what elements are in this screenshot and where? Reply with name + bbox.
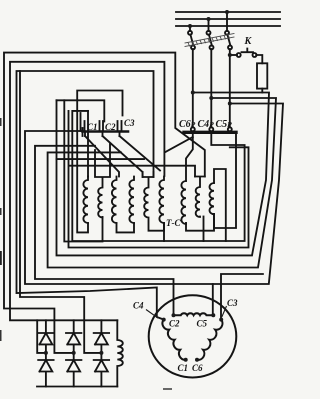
transformer coil G (181, 181, 186, 224)
svg-text:Т-С: Т-С (166, 218, 181, 228)
scan mark (163, 388, 172, 390)
svg-text:С2: С2 (105, 122, 116, 132)
bridge bottom rail (37, 386, 117, 388)
stub C1 (84, 131, 86, 136)
motor left winding (162, 320, 185, 360)
diode bridge top rail (37, 319, 117, 321)
diode D3 top (94, 320, 109, 353)
wire loop1 from bus area down-left (4, 53, 205, 353)
wire C2 net (35, 146, 174, 315)
transformer coil E (mid) with top bar (143, 172, 164, 231)
wire strip right end to coil I bottom (214, 134, 236, 229)
bar left tick (82, 128, 84, 136)
motor winding dots (162, 313, 224, 362)
wire l1 branch (57, 158, 145, 160)
leader C4 (146, 310, 158, 319)
stub C3 (119, 131, 121, 136)
contactor pole 3 (225, 12, 232, 131)
transformer coil I (209, 183, 214, 214)
wire coil F bottom stub (163, 223, 165, 241)
contact K (237, 53, 241, 57)
terminal C1 clip (85, 121, 100, 130)
stub C2 (102, 131, 104, 136)
transformer coil H (mid) (195, 177, 205, 218)
wire H_B to right edge (48, 98, 276, 268)
svg-text:С4: С4 (133, 301, 144, 311)
contact K wire (230, 54, 237, 56)
wire col3 feed (20, 71, 101, 353)
scan edge artifact 2 (0, 208, 2, 215)
transformer coil B (mid) with top bar (95, 144, 110, 218)
svg-text:С6: С6 (192, 363, 203, 373)
svg-text:С3: С3 (124, 118, 135, 128)
wire B bottom feed (64, 100, 102, 241)
wire loop3 (17, 71, 164, 320)
contactor pole 1 (188, 26, 195, 131)
wire coil I top (214, 169, 226, 241)
diode D4 bottom (38, 353, 53, 387)
svg-text:С5Р: С5Р (216, 119, 233, 130)
diagonal d2 (103, 136, 143, 177)
wire stub above bar (80, 113, 82, 131)
motor right winding (197, 320, 223, 360)
svg-text:С3: С3 (227, 298, 238, 308)
terminal C2 clip (103, 121, 118, 130)
svg-text:С2: С2 (169, 319, 180, 329)
wire resistor down (261, 89, 263, 93)
wire C-D bottom join (117, 223, 135, 232)
terminal bar C1C2C3 (83, 130, 129, 133)
transformer coil C (112, 177, 117, 224)
wire strip2 terminal to transformer bottoms (72, 111, 244, 241)
wire coil A bottom loop over terminals (77, 91, 122, 233)
junction dots on bus (188, 10, 229, 28)
scan edge artifact 4 (0, 330, 2, 341)
transformer T-C group1 coil A (83, 177, 88, 224)
wire coil H bottom stub (203, 217, 205, 242)
scan edge artifact 3 (0, 251, 2, 265)
diagonal d1 (85, 136, 119, 177)
wire K to resistor (256, 55, 262, 63)
contactor coupling bar (185, 34, 234, 47)
resistor R (257, 63, 267, 88)
wire row B top (57, 100, 105, 121)
terminal strip C6P C4P C5P (184, 131, 236, 134)
wire G-I bottom join (186, 214, 214, 231)
choke coil (117, 320, 123, 386)
motor top winding (174, 313, 214, 315)
svg-text:С4Р: С4Р (198, 119, 215, 130)
wire strip1 diagonal to coil F line (165, 137, 192, 152)
diode D1 top (38, 320, 53, 353)
diode D5 bottom (66, 353, 81, 387)
transformer coil D (129, 177, 134, 224)
svg-text:К: К (244, 36, 253, 47)
svg-text:С1: С1 (87, 122, 98, 132)
wire H_C to right edge (213, 104, 283, 285)
svg-text:С1: С1 (178, 363, 189, 373)
bus line L1 (176, 11, 280, 13)
wire C5 feeder from bar (25, 131, 174, 284)
svg-text:С5: С5 (197, 319, 208, 329)
wire C5 entry (174, 284, 213, 315)
transformer coil F (159, 177, 164, 224)
bus line L3 (176, 25, 280, 27)
wire E bottom net (69, 111, 249, 248)
wire loop2 (10, 62, 164, 353)
wire strip1 to coil G top (186, 134, 193, 182)
terminal C3 clip (121, 121, 123, 130)
diode D2 top (66, 320, 81, 353)
contactor pole 2 (207, 19, 214, 131)
scan edge artifact 1 (0, 118, 2, 126)
bus line L2 (176, 18, 280, 20)
svg-text:С6Р: С6Р (179, 119, 196, 130)
wire C1 straight to coil A (87, 111, 89, 177)
wire H_A to right edge (57, 93, 270, 256)
junction dots on drops (191, 53, 232, 106)
diode D6 bottom (94, 353, 109, 387)
diagonal d3 (120, 136, 161, 171)
leader C3 (222, 306, 227, 317)
motor circle (149, 295, 237, 377)
junction dots bridge (44, 351, 104, 355)
wire C3 entry from right edge (221, 274, 263, 320)
